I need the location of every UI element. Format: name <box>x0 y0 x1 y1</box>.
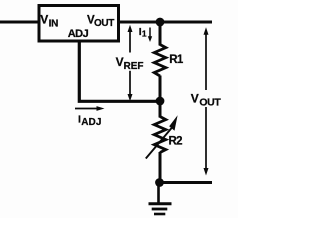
svg-text:R2: R2 <box>169 136 183 148</box>
wire ADJ pin down and right to node <box>79 41 158 101</box>
label VREF <box>116 55 144 72</box>
ground <box>149 204 172 214</box>
pin label VOUT <box>87 15 114 30</box>
measurement arrow VOUT <box>204 27 209 175</box>
svg-text:OUT: OUT <box>94 18 114 29</box>
svg-text:IN: IN <box>49 18 58 29</box>
wire from output node down to R1 <box>159 22 162 46</box>
current arrow I1 <box>139 26 152 42</box>
svg-text:V: V <box>191 91 199 105</box>
wiper arrow of R2 <box>146 115 178 158</box>
potentiometer R2 <box>154 117 166 153</box>
svg-text:REF: REF <box>124 61 144 72</box>
measurement arrow VREF <box>128 25 133 101</box>
svg-text:ADJ: ADJ <box>68 28 89 40</box>
wire from adj node down to R2 <box>159 101 162 118</box>
label VOUT <box>191 91 222 108</box>
node output junction <box>156 18 165 27</box>
svg-text:R1: R1 <box>169 54 184 66</box>
current arrow IADJ <box>75 106 105 128</box>
resistor R1 <box>154 45 166 77</box>
wire from R1 to adj node <box>159 76 162 102</box>
wire bottom rail to right <box>159 181 212 184</box>
svg-text:V: V <box>40 13 48 27</box>
wire to ground <box>157 183 160 203</box>
node adj junction <box>156 97 165 106</box>
wire output rail from VOUT to right <box>118 21 212 24</box>
wire input from left edge to regulator VIN <box>0 21 39 24</box>
pin label VIN <box>40 13 58 30</box>
svg-text:ADJ: ADJ <box>81 117 101 128</box>
node bottom junction <box>155 178 164 187</box>
svg-text:1: 1 <box>142 29 147 39</box>
regulator U1 box <box>39 6 119 42</box>
svg-text:OUT: OUT <box>199 97 221 109</box>
wire from R2 to bottom node <box>159 152 162 183</box>
svg-text:V: V <box>116 55 124 69</box>
